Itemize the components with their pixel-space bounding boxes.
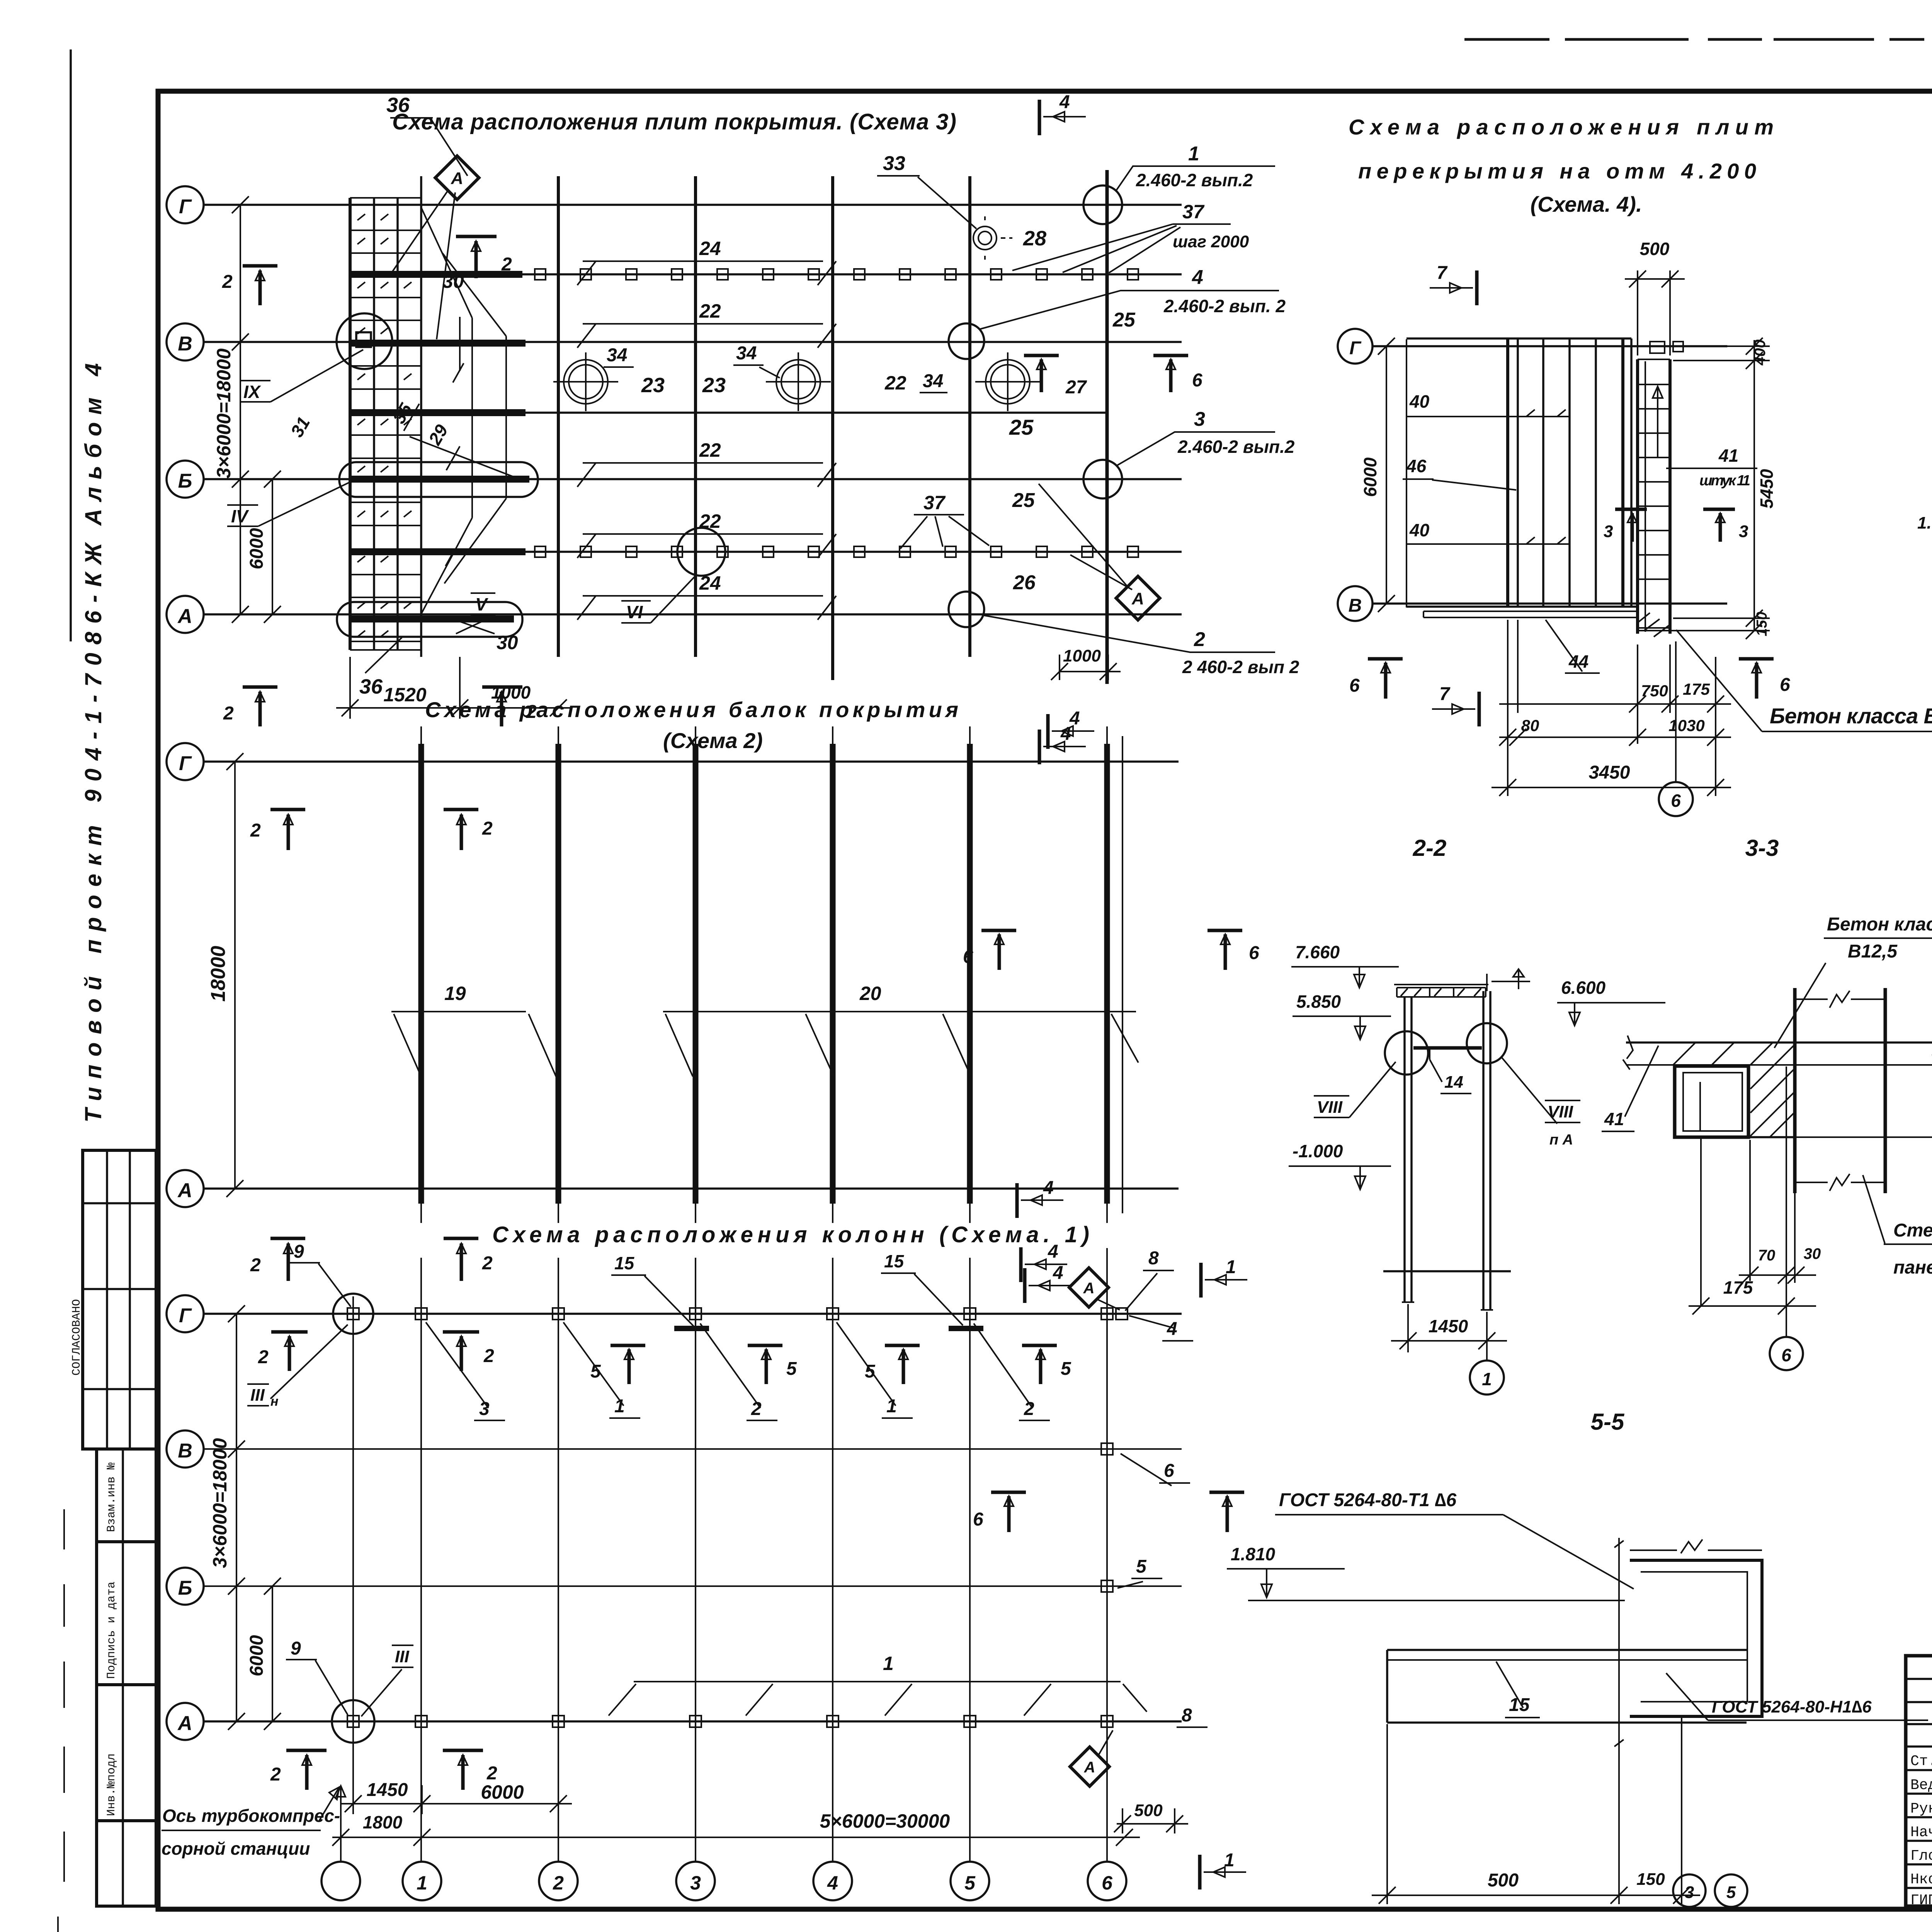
dim 18000 vertical [226, 753, 243, 1197]
svg-text:2: 2 [486, 1763, 497, 1784]
roof slab on top [1394, 985, 1488, 997]
level line 160 bottom [1795, 1136, 1932, 1138]
svg-text:33: 33 [883, 152, 905, 175]
svg-text:500: 500 [1488, 1870, 1519, 1891]
svg-text:Бетон класса: Бетон класса [1827, 914, 1932, 935]
svg-text:6: 6 [1102, 1872, 1113, 1894]
svg-text:н: н [270, 1394, 279, 1409]
section marker 3 left [1615, 509, 1647, 542]
svg-text:6000: 6000 [1360, 457, 1380, 497]
svg-text:6: 6 [1349, 675, 1360, 696]
svg-text:А: А [1083, 1280, 1095, 1297]
svg-text:9: 9 [294, 1242, 304, 1262]
section marker 2 bottom-right [482, 687, 522, 726]
svg-text:В: В [178, 333, 192, 355]
svg-text:Рук.гр: Рук.гр [1910, 1801, 1932, 1817]
svg-text:6: 6 [1164, 1461, 1174, 1481]
svg-text:37: 37 [1182, 201, 1205, 223]
section marker 3 right [1703, 509, 1735, 542]
svg-text:41: 41 [1718, 446, 1738, 466]
section marker 6 right [1207, 930, 1242, 970]
svg-text:4: 4 [1167, 1319, 1177, 1339]
svg-text:Схема расположения плит покр: Схема расположения плит покрытия. (Схема… [392, 109, 956, 134]
svg-text:5450: 5450 [1757, 469, 1777, 509]
svg-text:175: 175 [1723, 1277, 1753, 1298]
svg-text:8: 8 [1148, 1248, 1159, 1269]
svg-text:30: 30 [442, 270, 464, 292]
section marker 2 top-left [270, 810, 305, 850]
svg-text:5: 5 [1136, 1556, 1147, 1577]
svg-text:2: 2 [222, 272, 233, 292]
svg-text:А: А [1084, 1759, 1095, 1776]
svg-text:34: 34 [923, 371, 943, 391]
axis А line [204, 1187, 1179, 1190]
signature table [1906, 1656, 1932, 1906]
axis В [1372, 602, 1727, 605]
svg-text:1: 1 [1224, 1850, 1235, 1871]
section marker 4 bottom [1038, 730, 1041, 764]
svg-text:34: 34 [736, 343, 757, 364]
axis 6 circle bottom [1675, 641, 1677, 781]
svg-text:5.850: 5.850 [1296, 992, 1341, 1012]
dim 500 top [1625, 270, 1685, 355]
diamond A top [1069, 1268, 1109, 1307]
dim 500 right [1114, 1808, 1188, 1833]
small blocks at ladder top [1650, 342, 1665, 353]
level line 5.850 inside [1413, 1046, 1482, 1050]
section marker 6 left [981, 930, 1016, 970]
section marker 2 bottom-left [243, 687, 277, 726]
axis Г line [204, 760, 1179, 763]
svg-text:Ст.инж: Ст.инж [1910, 1753, 1932, 1770]
svg-text:6000: 6000 [247, 1635, 267, 1676]
axis circles [167, 186, 204, 633]
svg-text:5: 5 [590, 1361, 601, 1382]
svg-text:III: III [250, 1386, 265, 1405]
paper edge top dashed line [1464, 38, 1932, 41]
hatch at ladder bottom corner [1638, 613, 1669, 637]
svg-text:2.460-2 вып.2: 2.460-2 вып.2 [1177, 437, 1295, 457]
svg-text:2: 2 [553, 1872, 564, 1894]
svg-text:Г: Г [179, 752, 192, 775]
svg-text:150: 150 [1754, 612, 1770, 636]
view marker 7 bottom [1478, 692, 1481, 726]
circle callout on axis В beam [337, 313, 392, 369]
svg-text:ГИП: ГИП [1910, 1892, 1932, 1909]
slab block top and bottom edges [1406, 338, 1638, 607]
svg-text:VIII: VIII [1548, 1102, 1573, 1121]
svg-text:26: 26 [1013, 571, 1036, 594]
svg-text:п А: п А [1549, 1132, 1573, 1148]
svg-text:22: 22 [699, 300, 721, 322]
svg-text:1.030.1-1 вып 3-3: 1.030.1-1 вып 3-3 [1917, 514, 1932, 532]
top stub right column [1487, 969, 1530, 991]
svg-text:500: 500 [1640, 239, 1670, 259]
svg-text:6: 6 [973, 1509, 983, 1530]
slab strip joints [350, 198, 421, 650]
circled cross plate 2 [766, 352, 831, 411]
bottom axis circles [321, 1862, 1126, 1900]
svg-text:1: 1 [417, 1872, 427, 1894]
svg-text:6: 6 [1249, 943, 1259, 963]
svg-text:-1.000: -1.000 [1293, 1141, 1343, 1161]
svg-text:24: 24 [699, 572, 721, 594]
svg-text:25: 25 [1009, 415, 1034, 439]
channel wrap outer [1630, 1560, 1762, 1716]
svg-text:3: 3 [690, 1872, 701, 1894]
detail circles [1385, 1031, 1428, 1075]
svg-text:А: А [1131, 589, 1144, 608]
square tube [1675, 1066, 1748, 1137]
circled cross plate 1 [553, 352, 618, 411]
slab top lines [1626, 1041, 1932, 1044]
callout circle axis Г right [1083, 185, 1122, 224]
svg-text:14: 14 [1444, 1073, 1463, 1092]
svg-text:Схема расположения плит: Схема расположения плит [1349, 115, 1774, 139]
tube bottom / hatch bottom line [1675, 1136, 1795, 1138]
columns on axis Г [347, 1308, 1128, 1320]
svg-text:Г: Г [179, 196, 192, 218]
intermediate slab joint lines across plan [522, 274, 1182, 552]
paper edge left dashes [58, 1509, 64, 1932]
svg-text:Начотд: Начотд [1910, 1824, 1932, 1841]
section markers 2 below А [286, 1750, 327, 1790]
thick beam bars in strip [350, 274, 529, 619]
svg-text:СОГЛАСОВАНО: СОГЛАСОВАНО [70, 1299, 83, 1376]
break mark top [1681, 1539, 1702, 1553]
svg-text:3: 3 [1194, 408, 1205, 430]
console bars under columns 3 and 5 [674, 1326, 983, 1331]
svg-text:ГОСТ 5264-80-Н1∆6: ГОСТ 5264-80-Н1∆6 [1712, 1697, 1872, 1716]
svg-text:24: 24 [699, 238, 721, 259]
approval table (СОГЛАСОВАНО) [83, 1150, 156, 1449]
dim 6000 vertical [264, 1578, 281, 1730]
bottom dims [1492, 620, 1731, 796]
svg-text:30: 30 [1804, 1245, 1821, 1262]
svg-text:Б: Б [178, 470, 192, 492]
svg-text:6.600: 6.600 [1561, 978, 1606, 998]
svg-text:3450: 3450 [1589, 762, 1630, 783]
svg-text:А: А [451, 169, 463, 188]
svg-text:9: 9 [291, 1638, 301, 1659]
svg-text:4: 4 [1043, 1178, 1054, 1198]
svg-text:6000: 6000 [247, 528, 267, 569]
svg-text:Инв.№подл: Инв.№подл [105, 1753, 118, 1816]
plan left edge [1406, 339, 1407, 607]
svg-text:1.810: 1.810 [1231, 1544, 1276, 1564]
svg-text:2: 2 [250, 1255, 261, 1276]
circled turbo columns [333, 1294, 373, 1334]
svg-text:2: 2 [482, 1253, 493, 1274]
svg-text:5×6000=30000: 5×6000=30000 [820, 1810, 950, 1832]
svg-text:27: 27 [1065, 377, 1087, 398]
svg-text:IX: IX [243, 382, 261, 402]
svg-text:30: 30 [497, 632, 518, 653]
svg-text:штук 11: штук 11 [1699, 473, 1750, 489]
svg-text:Взам.инв №: Взам.инв № [105, 1463, 118, 1532]
section marker 2 top-right [456, 236, 497, 278]
svg-text:40: 40 [1409, 391, 1430, 412]
squares row top (шаг 2000) [535, 269, 1138, 280]
svg-text:2 460-2 вып 2: 2 460-2 вып 2 [1182, 657, 1299, 677]
circled cross plate 3 [975, 352, 1040, 411]
axis circles 3 5 [1673, 1874, 1747, 1907]
svg-text:1: 1 [883, 1653, 894, 1674]
svg-text:22: 22 [884, 372, 906, 394]
svg-text:400: 400 [1752, 340, 1769, 366]
svg-text:2: 2 [270, 1764, 281, 1785]
column grid verticals [420, 176, 422, 657]
svg-text:6: 6 [1780, 675, 1790, 695]
svg-text:175: 175 [1683, 680, 1710, 698]
section marker 6 right of plan [1739, 659, 1774, 699]
view marker 7 top [1475, 270, 1479, 305]
thin axis stubs [421, 726, 1122, 1223]
svg-text:2: 2 [250, 820, 261, 841]
svg-text:7: 7 [1437, 263, 1448, 283]
svg-text:40: 40 [1409, 520, 1430, 540]
section marker 2 top-left [243, 266, 277, 305]
dim 3x6000=18000 vertical [232, 196, 249, 623]
roof beams (thick bars) [421, 744, 1107, 1204]
svg-text:2: 2 [223, 703, 234, 724]
label 28 with small circle [973, 216, 1012, 260]
svg-text:Схема расположения балок покры: Схема расположения балок покрытия [425, 697, 958, 722]
bracket 22 row4 [577, 534, 836, 558]
svg-text:25: 25 [1012, 489, 1035, 512]
stadium outline around beam at axis А [337, 602, 522, 637]
beam body [1387, 1650, 1747, 1723]
svg-text:34: 34 [607, 345, 627, 366]
top dim line with break [1630, 1549, 1762, 1551]
fachwerk columns on line 6 [1101, 1443, 1113, 1455]
axis lines [204, 205, 1182, 614]
slab hatch ticks [357, 214, 412, 637]
section marker 2 top-right [444, 810, 478, 850]
svg-text:1: 1 [1226, 1257, 1236, 1277]
axis circle 6 [1770, 1337, 1803, 1370]
svg-text:4: 4 [1069, 708, 1080, 729]
svg-text:15: 15 [614, 1253, 635, 1273]
columns on axis А [347, 1716, 1113, 1727]
svg-text:VI: VI [626, 602, 643, 622]
svg-text:44: 44 [1568, 651, 1588, 672]
svg-text:5: 5 [786, 1359, 797, 1379]
wall panel verticals [1795, 988, 1885, 1193]
dim 6000 vertical [264, 471, 281, 623]
view marker 4 mid [1019, 1247, 1023, 1282]
dim 3x6000 vertical [228, 1305, 245, 1730]
dim 6000 vertical [1378, 338, 1395, 612]
svg-text:7.660: 7.660 [1295, 942, 1340, 962]
channel wrap inner [1641, 1572, 1747, 1702]
svg-text:Подпись и дата: Подпись и дата [105, 1582, 118, 1679]
svg-text:V: V [475, 594, 488, 614]
svg-text:2-2: 2-2 [1413, 835, 1447, 861]
cut line vertical [1614, 1538, 1624, 1754]
svg-text:25: 25 [1112, 309, 1136, 331]
svg-text:6: 6 [1671, 791, 1681, 811]
svg-text:2: 2 [258, 1347, 269, 1367]
section markers 2 below Г [271, 1332, 308, 1371]
section marker 6 left [991, 1492, 1026, 1532]
right column [1483, 991, 1490, 1310]
broken dims top/bottom of wall [1795, 991, 1885, 1008]
svg-text:80: 80 [1521, 716, 1539, 735]
diamond A marker bottom right [1116, 576, 1160, 620]
diamond A bottom [1070, 1747, 1109, 1786]
svg-text:III: III [395, 1647, 409, 1666]
svg-text:4: 4 [827, 1872, 838, 1894]
section markers 5 row [611, 1345, 645, 1384]
dim row 1800 / 5x6000=30000 [332, 1829, 1140, 1846]
axis circles [167, 743, 204, 1207]
svg-text:19: 19 [444, 983, 466, 1004]
svg-text:1030: 1030 [1668, 716, 1704, 735]
svg-text:5: 5 [865, 1361, 876, 1382]
left break mark [1623, 1036, 1633, 1070]
svg-text:(Схема. 4).: (Схема. 4). [1530, 192, 1642, 216]
svg-text:Б: Б [178, 1577, 192, 1599]
svg-text:36: 36 [359, 675, 383, 698]
svg-text:4: 4 [1192, 266, 1203, 289]
svg-text:750: 750 [1641, 682, 1668, 700]
svg-text:(Схема 2): (Схема 2) [663, 728, 763, 753]
callout 3 [1083, 460, 1122, 498]
svg-text:2: 2 [501, 254, 512, 275]
bottom dims 500 150 [1372, 1718, 1700, 1904]
svg-text:2: 2 [1194, 628, 1205, 651]
svg-text:2: 2 [482, 818, 493, 839]
svg-text:ГОСТ 5264-80-Т1 ∆6: ГОСТ 5264-80-Т1 ∆6 [1279, 1490, 1457, 1510]
slab fold outline [421, 207, 506, 614]
view marker 1 right [1199, 1263, 1203, 1298]
bracket 24 top [577, 261, 836, 285]
callout 4 [949, 323, 984, 359]
svg-text:А: А [177, 1179, 192, 1202]
svg-text:3: 3 [1604, 522, 1613, 541]
stadium outline around beam at axis Б [339, 462, 538, 497]
bottom dim 1450 [1391, 1304, 1507, 1352]
view marker 4 top [1046, 714, 1050, 749]
svg-text:4: 4 [1053, 1263, 1063, 1283]
dim row 1450 6000 [340, 1785, 572, 1814]
svg-text:1450: 1450 [1429, 1316, 1468, 1336]
svg-text:6000: 6000 [481, 1781, 524, 1803]
svg-text:1450: 1450 [367, 1780, 408, 1800]
section marker 4 top [1038, 100, 1041, 135]
right dim chain 400/5450/150 [1634, 338, 1770, 639]
svg-text:Г: Г [1349, 338, 1362, 359]
svg-text:шаг 2000: шаг 2000 [1173, 232, 1249, 251]
svg-text:5: 5 [964, 1872, 976, 1894]
column grid verticals [353, 1248, 1107, 1862]
axis Г [1372, 345, 1727, 347]
svg-text:B12,5: B12,5 [1848, 941, 1898, 962]
svg-text:22: 22 [699, 510, 721, 532]
lower stamp strip (Взам.инв / Подпись / Инв.подл) [97, 1449, 156, 1906]
svg-text:23: 23 [702, 374, 726, 397]
dim 1000 right [1051, 655, 1121, 680]
svg-text:Стеновая: Стеновая [1893, 1220, 1932, 1241]
left column [1405, 997, 1412, 1302]
svg-text:2.460-2 вып. 2: 2.460-2 вып. 2 [1163, 296, 1286, 316]
monolithic strip (ladder) [1638, 359, 1670, 634]
svg-text:VIII: VIII [1317, 1098, 1343, 1117]
svg-text:5: 5 [1726, 1883, 1736, 1902]
axis circle 1 [1486, 1352, 1488, 1360]
axis lines [204, 1314, 1182, 1721]
svg-text:3-3: 3-3 [1745, 835, 1779, 861]
bracket 24 bottom [577, 596, 836, 620]
svg-text:150: 150 [1636, 1870, 1665, 1889]
svg-text:В: В [178, 1440, 192, 1462]
slab strip verticals [349, 198, 352, 650]
svg-text:4: 4 [1048, 1242, 1058, 1262]
slab block verticals [1508, 338, 1623, 607]
svg-text:7: 7 [1439, 684, 1451, 704]
svg-text:Нконтр: Нконтр [1910, 1871, 1932, 1888]
svg-text:3: 3 [1685, 1883, 1694, 1902]
axis line 6 vertical [1701, 1066, 1786, 1337]
svg-text:Глспец: Глспец [1910, 1848, 1932, 1864]
svg-text:6: 6 [1192, 370, 1202, 391]
circle callout VI on square row [677, 528, 725, 576]
svg-text:Вединж: Вединж [1910, 1777, 1932, 1794]
svg-text:6: 6 [963, 947, 973, 967]
svg-text:5: 5 [1061, 1359, 1071, 1379]
dim 70 30 [1739, 1140, 1816, 1284]
dim 1520 / 1000 bottom [336, 657, 571, 719]
svg-text:15: 15 [1509, 1695, 1530, 1715]
svg-text:А: А [177, 1712, 192, 1735]
svg-text:В: В [1349, 595, 1362, 616]
section marker 6 mid [1024, 355, 1059, 392]
svg-text:1800: 1800 [363, 1812, 403, 1832]
svg-text:20: 20 [859, 983, 881, 1004]
section marker 6 left of plan [1368, 659, 1403, 699]
squares row bottom [535, 546, 1138, 557]
bracket 22 row3 [577, 463, 836, 487]
svg-text:8: 8 [1182, 1705, 1192, 1726]
svg-text:41: 41 [1604, 1109, 1624, 1129]
svg-text:22: 22 [699, 439, 721, 461]
view marker 4 upper [1015, 1183, 1019, 1218]
arrow inside ladder [1653, 386, 1663, 458]
bracket 22 row2 [577, 324, 836, 348]
svg-text:1: 1 [1482, 1369, 1492, 1389]
svg-text:2: 2 [483, 1346, 494, 1366]
view marker 4 bottom [1023, 1268, 1027, 1303]
svg-text:1: 1 [1188, 143, 1199, 165]
svg-text:6: 6 [1781, 1345, 1791, 1365]
svg-text:46: 46 [1406, 456, 1427, 476]
bottom monolith strip 44 [1423, 611, 1638, 617]
section marker 6 right [1153, 355, 1188, 392]
axis circles [167, 1295, 204, 1740]
svg-text:1000: 1000 [1063, 646, 1101, 665]
svg-text:панель: панель [1893, 1257, 1932, 1278]
svg-text:сорной станции: сорной станции [162, 1838, 310, 1859]
paper edge left thin line [70, 49, 72, 641]
turbo axis dash line [336, 1786, 345, 1862]
svg-text:1520: 1520 [383, 684, 426, 706]
svg-text:3: 3 [1739, 522, 1748, 541]
level line [1248, 1600, 1625, 1601]
svg-text:Ось турбокомпрес-: Ось турбокомпрес- [162, 1806, 340, 1826]
svg-text:28: 28 [1023, 227, 1046, 250]
hatched concrete zone [1673, 1043, 1795, 1137]
